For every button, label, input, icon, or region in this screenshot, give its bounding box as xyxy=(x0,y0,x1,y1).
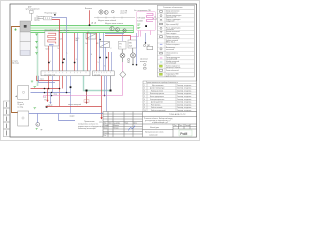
dot pair 5 xyxy=(99,57,101,59)
svg-text:Р1: Р1 xyxy=(45,97,47,99)
svg-text:д.20 по стене: д.20 по стене xyxy=(166,75,176,77)
pumps box A2 xyxy=(15,86,29,100)
dot blue right2 xyxy=(145,42,146,43)
dot pair 6 xyxy=(106,57,108,59)
svg-text:3х1.5: 3х1.5 xyxy=(76,38,80,40)
legend symbols xyxy=(159,11,162,76)
svg-text:П1 доп.К: П1 доп.К xyxy=(17,104,24,106)
dot blue right xyxy=(136,64,138,66)
logo xyxy=(179,130,192,136)
svg-text:Электронагреватель: Электронагреватель xyxy=(150,99,165,101)
svg-text:распростр. горение: распростр. горение xyxy=(166,67,180,69)
bus blue N xyxy=(31,92,71,94)
svg-text:Подп.: Подп. xyxy=(125,123,130,125)
svg-text:Смонтир. и подключ.: Смонтир. и подключ. xyxy=(177,102,192,104)
svg-text:частотн.: частотн. xyxy=(34,18,41,20)
svg-text:автоматику вентиляции: автоматику вентиляции xyxy=(78,128,96,130)
drop below XT1 blue long xyxy=(70,76,72,114)
wire regulator red xyxy=(52,20,60,26)
damper actuator M3 xyxy=(100,42,110,48)
exhaust fan M1 xyxy=(99,10,114,14)
svg-text:Лист: Лист xyxy=(109,123,113,125)
svg-text:5х1.5: 5х1.5 xyxy=(46,48,50,50)
power cable brown xyxy=(12,27,21,113)
pump P3 xyxy=(131,48,136,65)
drop below XT1 pair2 red xyxy=(62,76,64,89)
pink control line xyxy=(44,96,123,98)
parts table xyxy=(143,81,197,112)
parts rows xyxy=(143,86,197,108)
wire red mid xyxy=(105,36,131,41)
ground symbol green xyxy=(14,28,16,30)
title block xyxy=(103,112,197,138)
svg-text:ВВГ: ВВГ xyxy=(76,40,79,42)
arrow wires to pumps red xyxy=(47,89,48,102)
svg-text:N: N xyxy=(58,48,59,50)
junction square xyxy=(46,106,48,108)
drain pump xyxy=(36,114,44,131)
heater control box xyxy=(128,40,136,48)
fire loop square 2 xyxy=(110,90,112,92)
svg-text:манометр: манометр xyxy=(140,61,147,63)
fire signal label box xyxy=(84,100,89,103)
svg-text:ТСН4-АОВ.С5-ТХ: ТСН4-АОВ.С5-ТХ xyxy=(169,113,186,116)
wire to P4 box xyxy=(122,33,124,41)
flow switch diamond xyxy=(120,71,126,77)
svg-text:реш. КО: реш. КО xyxy=(121,13,128,15)
svg-text:обр.клапан: обр.клапан xyxy=(140,59,148,61)
parts texts xyxy=(144,85,192,112)
svg-text:Изм: Изм xyxy=(104,123,107,125)
wire pair 2 blue xyxy=(66,26,68,71)
drop below XT1 pair1 blue xyxy=(52,76,54,93)
svg-text:Датчик температуры: Датчик температуры xyxy=(166,15,182,17)
svg-text:Насос циркуляцион.: Насос циркуляцион. xyxy=(150,96,165,98)
wire blue mid xyxy=(105,33,124,35)
dot pair 3 xyxy=(74,62,76,64)
signal red horizontal xyxy=(46,107,102,120)
damper marks xyxy=(92,22,96,23)
svg-text:напольной: напольной xyxy=(149,133,157,136)
pump feed blue xyxy=(39,76,56,83)
drop below XT2 red xyxy=(101,76,103,107)
margin stamp cells xyxy=(4,101,11,137)
green network bus band xyxy=(31,25,134,33)
damper actuator M2 xyxy=(86,33,96,39)
svg-text:Смонтир. и подключ.: Смонтир. и подключ. xyxy=(177,88,192,90)
svg-text:Линия управления: Линия управления xyxy=(166,57,180,59)
svg-text:Лист: Лист xyxy=(179,125,183,127)
svg-text:авар.: авар. xyxy=(54,94,58,96)
supply fan circles mid xyxy=(110,26,126,32)
svg-text:Медные жилы кабелей: Медные жилы кабелей xyxy=(98,19,116,22)
blue drop right xyxy=(136,33,138,65)
green bus drop right / fire loop xyxy=(84,33,111,91)
svg-text:Смонтир. и подключ.: Смонтир. и подключ. xyxy=(177,96,192,98)
svg-text:насосом 0-10В: насосом 0-10В xyxy=(166,59,177,61)
legend table xyxy=(157,5,194,77)
wire pair 7 blue xyxy=(111,52,113,71)
note text block xyxy=(78,121,103,130)
svg-text:документации на оборудование и: документации на оборудование и xyxy=(78,126,103,128)
wire pair 1 red xyxy=(48,46,50,71)
svg-text:Насосы: Насосы xyxy=(17,102,24,104)
svg-text:Схему вязать согласно тех.: Схему вязать согласно тех. xyxy=(78,123,99,125)
heat exchanger W1 xyxy=(45,31,59,46)
svg-text:откл.: откл. xyxy=(99,122,103,124)
svg-text:КМ1: КМ1 xyxy=(129,42,132,44)
dot pair 2 xyxy=(62,62,64,64)
green bus drop left xyxy=(37,33,39,86)
svg-text:насос: насос xyxy=(40,79,44,81)
svg-text:для подъезда до подключения, д: для подъезда до подключения, д.7 xyxy=(145,120,171,122)
svg-text:5: 5 xyxy=(98,62,99,64)
svg-text:авария: авария xyxy=(70,116,75,118)
wire pair 3 red xyxy=(74,33,76,71)
svg-text:Реле протока: Реле протока xyxy=(151,104,160,106)
svg-text:Насос циркуляцион.: Насос циркуляцион. xyxy=(166,27,182,29)
junction dot above regulator xyxy=(54,14,56,16)
fire signal drop xyxy=(86,92,87,104)
remote control panel HMI xyxy=(26,6,40,13)
wire HMI to controller xyxy=(30,13,32,21)
svg-text:на обед: на обед xyxy=(17,106,23,108)
legend texts xyxy=(166,10,182,78)
svg-text:ТЭН 45кВт: ТЭН 45кВт xyxy=(137,17,145,19)
svg-text:пульт управления: пульт управления xyxy=(26,8,40,10)
svg-text:Пров.: Пров. xyxy=(104,128,109,130)
svg-text:привод: привод xyxy=(34,19,39,21)
signature xyxy=(129,126,136,131)
controller A1 xyxy=(20,21,31,56)
junction square blue xyxy=(70,86,72,88)
svg-text:Н.контр.: Н.контр. xyxy=(104,133,110,135)
svg-text:Листов: Листов xyxy=(185,125,190,127)
svg-text:Смонтир. и подключ.: Смонтир. и подключ. xyxy=(177,99,192,101)
wire pair 2 red xyxy=(59,26,61,71)
svg-text:L: L xyxy=(67,53,68,55)
svg-text:Смонтир. и подключ.: Смонтир. и подключ. xyxy=(177,107,192,109)
drop below XT2 blue xyxy=(104,76,106,96)
heater pink feed xyxy=(131,31,151,41)
wire pair 2 red b xyxy=(62,33,64,71)
bus dots xyxy=(44,88,68,94)
svg-text:1 2 3 4 5 6 7 8 9: 1 2 3 4 5 6 7 8 9 xyxy=(44,74,55,76)
fire loop square 1 xyxy=(86,90,88,92)
svg-text:Вытяжка: Вытяжка xyxy=(85,8,92,10)
svg-text:ВВГнг 3х1,5: ВВГнг 3х1,5 xyxy=(166,42,175,44)
svg-text:Функциональная схема: Функциональная схема xyxy=(145,131,163,134)
duct boundary xyxy=(94,17,135,19)
junction dot P3 xyxy=(132,64,134,66)
terminal strip XT1 xyxy=(41,71,90,76)
wire pair 4 red xyxy=(87,33,89,71)
junction dot M3 xyxy=(99,39,101,41)
title block texts xyxy=(104,113,191,137)
svg-text:Датчик температуры: Датчик температуры xyxy=(150,88,164,90)
svg-text:Петров: Петров xyxy=(114,128,119,130)
wire labels small xyxy=(46,38,112,67)
svg-text:2х1: 2х1 xyxy=(85,43,88,45)
arrow wires to pumps blue xyxy=(50,93,51,104)
electric heater EK1 xyxy=(137,12,157,31)
svg-text:Смонтир. и подключ.: Смонтир. и подключ. xyxy=(177,93,192,95)
signal blue horizontal xyxy=(29,113,107,115)
pink riser to flow switch xyxy=(122,77,124,95)
drop below XT1 red long xyxy=(59,76,61,107)
svg-text:Жилой дом: Жилой дом xyxy=(150,126,160,129)
svg-text:отопления: отопления xyxy=(166,29,174,31)
legend rows xyxy=(157,14,194,73)
wire exhaust red xyxy=(89,10,91,25)
svg-text:Вентилятор притока: Вентилятор притока xyxy=(150,93,164,95)
drop below XT1 pair2 blue xyxy=(66,76,68,93)
pumps box A3 xyxy=(18,111,29,126)
dot pair 1 xyxy=(48,62,50,64)
pump P4 circle xyxy=(120,49,125,62)
svg-text:РиМ: РиМ xyxy=(180,132,187,136)
wire pair 4 blue xyxy=(90,33,92,71)
signal blue branch xyxy=(59,114,76,121)
svg-text:Медные жилы каналов: Медные жилы каналов xyxy=(105,23,123,25)
svg-text:Дата: Дата xyxy=(134,123,137,125)
svg-text:темп. воздуха: темп. воздуха xyxy=(166,33,176,35)
green tee symbols column xyxy=(35,34,38,54)
svg-text:1 2 3 4 5: 1 2 3 4 5 xyxy=(94,74,100,76)
blue drop right2 xyxy=(145,33,147,43)
drop below XT2 blue2 xyxy=(106,76,108,114)
pump feed red xyxy=(37,76,60,81)
svg-text:ЩС ввод: ЩС ввод xyxy=(12,63,19,65)
svg-text:от щита: от щита xyxy=(12,61,18,63)
junction dot exhaust xyxy=(89,24,91,26)
svg-text:Иванов: Иванов xyxy=(114,125,119,127)
wire regulator blue xyxy=(52,18,67,26)
speed regulator xyxy=(34,13,57,22)
svg-text:сигнализации: сигнализации xyxy=(166,63,176,65)
wire pair 5 red xyxy=(96,33,98,71)
svg-text:Р2: Р2 xyxy=(45,99,47,101)
pump P4 box xyxy=(119,41,127,49)
svg-text:Разраб.: Разраб. xyxy=(104,125,110,127)
wire pair 1 blue xyxy=(52,46,54,71)
svg-text:Привод заслонки: Привод заслонки xyxy=(166,36,179,38)
terminal strip XT2 xyxy=(93,71,115,76)
terminal squares on pair2 xyxy=(63,58,65,60)
drop below XT2 dark xyxy=(110,76,112,91)
drop below XT1 pair1 red xyxy=(48,76,50,89)
svg-text:Датчик давления: Датчик давления xyxy=(151,102,163,104)
bus red L xyxy=(31,88,60,90)
svg-text:к П1,П2: к П1,П2 xyxy=(47,105,52,107)
svg-text:Привод заслонки: Привод заслонки xyxy=(151,90,163,92)
wire pair 5 blue xyxy=(99,33,101,71)
svg-text:3х400В: 3х400В xyxy=(137,21,142,23)
wire pair 7 red xyxy=(108,52,110,71)
svg-text:Кабель контрольн.: Кабель контрольн. xyxy=(166,44,180,46)
wire pair 3 blue xyxy=(77,33,79,71)
svg-text:Щит автоматики: Щит автоматики xyxy=(152,85,163,87)
svg-text:плане: плане xyxy=(166,54,171,56)
svg-text:Условные обозначения: Условные обозначения xyxy=(163,7,182,9)
svg-text:Обозначение на: Обозначение на xyxy=(166,53,178,55)
pink riser above diamond xyxy=(122,62,124,71)
svg-text:Смонтир. и подключ.: Смонтир. и подключ. xyxy=(177,104,192,106)
svg-text:Вентилятор: Вентилятор xyxy=(166,47,175,49)
svg-text:Смонтир. и подключ.: Смонтир. и подключ. xyxy=(177,85,192,87)
svg-text:Клапан с приводом: Клапан с приводом xyxy=(166,19,180,21)
svg-text:3: 3 xyxy=(76,59,77,61)
pink dot xyxy=(51,95,53,97)
svg-text:Лит: Лит xyxy=(174,125,177,127)
green PE marks xyxy=(31,81,36,109)
wire pair 6 blue b xyxy=(105,47,107,71)
svg-text:Примечание:: Примечание: xyxy=(84,121,95,123)
valve cluster small xyxy=(128,44,153,69)
wire pair 6 blue xyxy=(103,33,105,71)
svg-text:РТ1: РТ1 xyxy=(119,44,122,46)
svg-text:Смонтир. и подключ.: Смонтир. и подключ. xyxy=(177,90,192,92)
